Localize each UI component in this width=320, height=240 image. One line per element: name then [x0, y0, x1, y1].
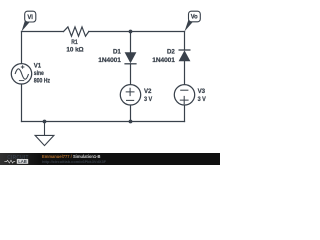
- svg-text:1N4001: 1N4001: [98, 57, 121, 64]
- footer attribution text: [42, 154, 107, 164]
- node flag Vo: [185, 11, 201, 31]
- ground: [35, 122, 54, 146]
- footer CircuitLab logo: [0, 153, 40, 165]
- svg-text:10 kΩ: 10 kΩ: [66, 46, 84, 53]
- svg-text:LAB: LAB: [18, 159, 27, 164]
- diode D1: [124, 52, 136, 64]
- wire left vertical upper: [21, 32, 23, 64]
- svg-text:800 Hz: 800 Hz: [34, 78, 51, 85]
- wire V2 to bottom: [130, 105, 132, 122]
- wire top right segment: [89, 31, 185, 33]
- source V1 sine: [11, 64, 31, 84]
- source V1 labels: [34, 63, 51, 85]
- wire D1 branch upper: [130, 32, 132, 53]
- resistor R1 labels: [66, 39, 84, 53]
- svg-text:Vi: Vi: [27, 14, 33, 21]
- source V3: [174, 85, 194, 105]
- diode D1 labels: [98, 49, 121, 64]
- svg-text:3 V: 3 V: [144, 96, 153, 103]
- junction dot ground: [43, 120, 47, 124]
- diode D2: [179, 50, 191, 61]
- svg-text:R1: R1: [71, 39, 78, 46]
- svg-text:Vo: Vo: [191, 14, 198, 21]
- footer watermark bar: [0, 153, 220, 165]
- source V2 labels: [144, 88, 153, 103]
- junction dot top D1: [129, 30, 133, 34]
- svg-text:D1: D1: [113, 49, 121, 56]
- wire bottom: [22, 121, 185, 123]
- wire D2 to V3: [184, 61, 186, 84]
- junction dot bottom V2: [129, 120, 133, 124]
- svg-text:V1: V1: [34, 63, 42, 70]
- diode D2 labels: [152, 49, 175, 64]
- wire top left segment: [22, 31, 64, 33]
- resistor R1 zigzag: [64, 27, 89, 36]
- wire right vertical to D2: [184, 32, 186, 51]
- svg-text:1N4001: 1N4001: [152, 57, 175, 64]
- source V2: [120, 85, 140, 105]
- wire D1 to V2: [130, 64, 132, 85]
- svg-text:sine: sine: [34, 70, 44, 77]
- svg-text:V3: V3: [198, 88, 206, 95]
- source V3 labels: [198, 88, 207, 103]
- node flag Vi: [22, 11, 36, 31]
- svg-text:http://circuitlab.com/c6Pbk3Vd: http://circuitlab.com/c6Pbk3VdX3F: [42, 159, 107, 164]
- svg-text:V2: V2: [144, 88, 152, 95]
- wire left vertical lower: [21, 84, 23, 122]
- svg-text:3 V: 3 V: [198, 96, 207, 103]
- wire V3 to bottom: [184, 105, 186, 122]
- svg-text:D2: D2: [167, 49, 175, 56]
